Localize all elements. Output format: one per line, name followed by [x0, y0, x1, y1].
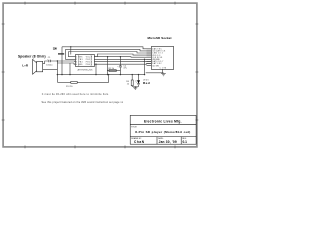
svg-text:1000u: 1000u — [46, 65, 53, 67]
svg-text:8-Pin SD player (Mono/8bit out: 8-Pin SD player (Mono/8bit out) — [135, 130, 190, 134]
svg-text:L+R: L+R — [22, 64, 28, 68]
svg-text:TITLE:: TITLE: — [131, 126, 137, 128]
svg-text:Electronic Lives Mfg.: Electronic Lives Mfg. — [144, 119, 182, 123]
svg-text:ChaN: ChaN — [134, 140, 145, 144]
svg-text:ATTINY85-20S: ATTINY85-20S — [78, 69, 94, 72]
svg-text:MicroSD Socket: MicroSD Socket — [148, 36, 172, 40]
svg-text:0.1: 0.1 — [182, 140, 187, 144]
svg-text:+: + — [117, 66, 118, 68]
svg-text:+: + — [47, 59, 48, 61]
svg-text:R1 7k5: R1 7k5 — [66, 86, 73, 88]
svg-text:See this project featured on t: See this project featured on the AVR sou… — [42, 101, 124, 104]
svg-text:Red: Red — [143, 81, 150, 85]
svg-text:COM: COM — [160, 68, 167, 70]
svg-text:4 GND: 4 GND — [76, 64, 83, 66]
svg-text:It must be 30-230 ohm used her: It must be 30-230 ohm used here to minim… — [42, 93, 110, 96]
svg-text:PB0 5: PB0 5 — [86, 64, 92, 66]
svg-text:Speaker (8 Ohm): Speaker (8 Ohm) — [18, 55, 46, 59]
svg-text:3.3V: 3.3V — [53, 46, 57, 50]
svg-text:Jan 30, '09: Jan 30, '09 — [159, 140, 177, 144]
svg-text:R2 1k: R2 1k — [109, 68, 115, 70]
svg-text:CD SW: CD SW — [152, 65, 159, 67]
